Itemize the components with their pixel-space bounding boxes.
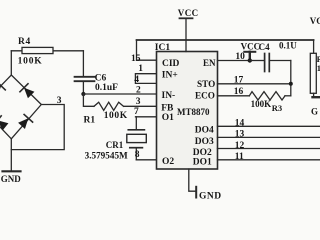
wire pin15 CID from top rail [137,40,157,60]
svg-text:IN-: IN- [162,91,176,101]
capacitor C6 [75,51,119,94]
svg-text:4: 4 [134,75,139,85]
wire C4 right down [290,61,292,96]
svg-text:ECO: ECO [195,90,215,100]
svg-text:10: 10 [235,52,245,62]
svg-text:13: 13 [235,130,245,140]
svg-text:CID: CID [162,59,180,69]
svg-text:DO4: DO4 [195,126,214,136]
wire DO1 pin11 [218,152,320,162]
svg-text:C4: C4 [259,42,270,52]
resistor R3 on pin16 ECO [218,87,291,113]
IC pin name labels [161,58,216,168]
svg-text:R4: R4 [18,37,31,47]
svg-text:IN+: IN+ [162,70,178,80]
svg-text:15: 15 [131,54,141,64]
svg-text:3: 3 [136,97,141,107]
svg-text:0.1uF: 0.1uF [95,83,118,93]
svg-text:100K: 100K [18,56,43,66]
wire O1 stub [136,116,157,118]
svg-text:3.579545M: 3.579545M [85,151,128,161]
ground below IC [189,169,222,201]
wire pin17 STO [218,75,293,85]
resistor R4 [11,37,83,67]
diode D1 (upper right arm) [20,84,35,99]
top rail wire [137,39,314,41]
op IC1 MT8870 box [155,43,218,169]
svg-text:DO3: DO3 [195,137,214,147]
svg-text:100K: 100K [104,111,128,121]
resistor R5 (right edge pull-up) [310,40,320,116]
svg-text:11: 11 [235,152,244,162]
svg-text:17: 17 [234,75,244,85]
svg-text:VCC: VCC [178,8,199,18]
svg-text:16: 16 [234,87,244,97]
svg-text:14: 14 [235,118,245,128]
svg-text:0.1U: 0.1U [279,41,297,51]
svg-text:GND: GND [199,191,222,201]
svg-text:12: 12 [235,141,245,151]
svg-text:G: G [311,106,318,116]
ground (bottom left) [1,139,22,184]
wire DO4 pin14 [218,118,320,128]
svg-text:100K: 100K [251,99,272,109]
svg-text:GND: GND [1,174,22,184]
VCC tap at pin10 [241,42,261,63]
svg-text:MT8870: MT8870 [177,107,210,117]
bracket tying pins 1 and 4 [135,74,156,84]
svg-text:VCC: VCC [241,42,261,52]
svg-text:R1: R1 [84,115,96,125]
resistor R1 [83,94,156,125]
svg-text:VCC: VCC [310,16,320,26]
svg-text:O1: O1 [162,113,174,123]
svg-text:DO1: DO1 [193,157,212,167]
wire DO3 pin13 [218,130,320,140]
diode D3 (upper left arm, partially visible) [0,82,5,97]
svg-text:O2: O2 [162,157,174,167]
svg-text:CR1: CR1 [106,140,124,150]
diode D2 (lower right arm) [17,114,32,129]
svg-text:1: 1 [138,64,143,74]
svg-text:8: 8 [135,150,140,160]
svg-text:R3: R3 [272,103,282,113]
svg-text:STO: STO [197,79,215,89]
svg-text:7: 7 [134,107,139,117]
svg-text:C6: C6 [95,73,107,83]
pin number labels left [131,54,143,160]
svg-text:2: 2 [136,86,141,96]
svg-text:3: 3 [57,96,62,106]
svg-text:IC1: IC1 [155,43,171,53]
diode D4 (lower left arm, partially visible) [0,116,9,131]
capacitor C4 [250,41,297,72]
diode bridge diagonals [0,75,41,139]
VCC supply above IC [178,8,199,52]
node junction dot [81,92,85,96]
svg-text:EN: EN [203,58,216,68]
wire DO2 pin12 [218,141,320,151]
wire pin10 EN [218,52,250,62]
wire pin2 IN- [83,93,156,95]
crystal CR1 [85,117,157,161]
wire left vertical from R4 to bridge top [10,51,12,75]
node 3 wire from bridge right corner [11,96,64,150]
